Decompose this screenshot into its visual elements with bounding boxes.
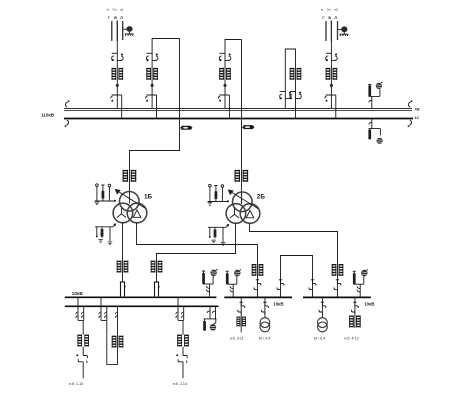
transformer 1B [113,189,147,223]
CT TA5 [326,68,338,80]
node tick Q5 [330,84,332,86]
svg-text:1С: 1С [415,116,420,120]
svg-text:110кВ: 110кВ [41,112,55,117]
svg-text:1Б: 1Б [144,193,153,200]
disconnector QS4a [280,92,292,100]
voltage transformer bay TV2 below 110kV bus [368,119,382,143]
feeder F6 (station transformer) [321,298,323,317]
voltage transformer bay TV3 above left bus end [202,269,218,296]
disconnector QS2 [146,53,158,61]
disconnector QS13 [176,347,187,364]
svg-text:н.б. 1-10: н.б. 1-10 [69,382,83,386]
transformer feeder 2 (to 2B) [241,40,243,205]
node tick Q2 [151,84,153,86]
bar hook Q2 [145,96,147,98]
coupler loop wire [285,49,295,119]
bus jumper P (middle to right bus) [281,256,313,297]
main line Q1 [116,21,118,109]
svg-text:Ол: Ол [327,8,331,12]
bus W2 upper line [65,296,217,298]
cluster above 1B [95,184,116,205]
CT TA10 [151,261,163,273]
bus end hook right-bottom [408,120,412,127]
flag marker on feeder 2 [242,125,255,129]
cluster above 2B [208,184,229,205]
loop wire F2 [107,307,118,365]
svg-text:2Б: 2Б [257,194,266,201]
voltage transformer bay TV1 above 110kV bus [368,82,383,108]
CT TA1 [112,68,124,80]
hooks F2 [99,312,101,318]
svg-text:Л: Л [334,16,337,20]
feeder F1 drops [78,298,84,321]
svg-text:Ол: Ол [112,8,116,12]
flag marker on feeder 1 [180,126,193,130]
node tick Q1 [116,84,118,86]
svg-text:Л: Л [120,16,123,20]
svg-text:10кВ: 10кВ [273,302,283,307]
disconnector QS8 [254,280,261,291]
svg-text:10кВ: 10кВ [72,291,84,296]
bus branch bar Q5 [326,95,336,119]
feeder F4 [240,298,242,332]
transformer 2B [226,190,260,224]
svg-text:иЗ: иЗ [120,8,124,12]
CT TA16 [349,316,361,328]
svg-text:м: м [321,8,323,12]
CT TA9 [252,264,264,276]
hook F2b [115,312,117,318]
disconnector QS15 [261,302,268,313]
svg-text:н.б. 2-14: н.б. 2-14 [173,382,187,386]
breaker QF2 [154,282,160,296]
bus end hook left-bottom [65,120,69,127]
svg-text:н.б. 3-11: н.б. 3-11 [230,337,244,341]
phase stub left [111,21,113,41]
transformer T1 [260,318,270,332]
CT TA3 [219,68,231,80]
voltage transformer bay TV5 above middle bus [226,270,242,297]
bus W2 lower line [65,305,219,307]
wire 1B-LV2 to middle bus [137,223,258,297]
phase stub left [325,21,327,41]
wire 2B-LV1 to left bus [157,223,236,282]
CT TA13 [112,336,124,348]
feeder F1 main [82,320,84,378]
bus W4 (right) [303,296,371,298]
bar hook Q1 [111,96,113,98]
feeder F3 main [182,320,184,378]
disconnector QS4b [290,92,302,100]
svg-text:В: В [114,16,117,20]
disconnector QS1 [112,53,124,61]
hooks F1 [76,312,78,318]
voltage transformer bay TV4 below left bus end [203,307,216,331]
transformer feeder 1 (to 1B) [130,39,180,204]
CT TA7 on 2B HV [234,170,248,182]
CT TA4 [290,68,302,80]
CT TA11 [332,264,344,276]
disconnector QS14 [238,302,245,313]
voltage transformer bay TV6 above right bus [353,270,369,297]
disconnector QS17 [351,302,358,313]
bus branch bar Q1 [112,95,122,119]
main line Q3 [225,40,242,109]
svg-text:иЗ: иЗ [334,8,338,12]
feeder F5 (station transformer) [264,298,266,317]
bar hook Q5 [325,96,327,98]
breaker QF1 [120,282,126,296]
arrester FV1 [123,26,134,36]
bus branch bar Q3 [219,95,229,119]
phase stub right [122,21,124,40]
CT TA12 [77,335,89,347]
svg-text:10 / 0,4: 10 / 0,4 [313,337,325,341]
svg-text:10 / 0,4: 10 / 0,4 [258,337,270,341]
cluster below 2B [208,224,229,245]
bar hook Q3 [218,96,220,98]
disconnector QS10 [277,280,284,291]
CT TA6 on 1B HV [123,170,137,182]
bus branch bar Q2 [146,95,156,119]
feeder F7 [354,298,356,328]
svg-text:В: В [328,16,331,20]
disconnector QS11 [309,280,316,291]
bus end hook right-top [408,100,412,107]
CT TA8 [117,261,129,273]
feeder F3 drops [178,298,184,321]
cluster below 1B [95,224,116,245]
CT TA14 [177,335,189,347]
bus W1 lower (110kV bus line 2) [64,118,413,120]
arrester FV5 [338,26,349,36]
bus W1 upper (110kV bus line 1) [64,108,412,110]
CT TA2 [146,68,158,80]
svg-text:ХВ: ХВ [415,108,420,112]
CT TA15 [236,317,246,327]
bus W3 (middle) [224,296,292,298]
feeder F2 (U loop to TSN) drops [101,298,107,321]
disconnector QS9 [334,280,341,291]
phase stub right [337,21,339,40]
wire 2B-LV2 to right bus [250,223,338,296]
svg-text:10кВ: 10кВ [364,301,374,306]
disconnector QS3 [219,53,231,61]
transformer T2 [318,318,328,332]
disconnector QS12 [76,347,87,364]
svg-text:н.б. 4-12: н.б. 4-12 [344,337,358,341]
main line Q2 [152,39,179,109]
hooks F3 [176,312,178,318]
disconnector QS5 [326,53,338,61]
disconnector QS16 [319,302,326,313]
wire 1B-LV1 to left bus [122,223,124,282]
svg-text:м: м [107,8,109,12]
main line Q5 [330,21,332,109]
node tick Q3 [224,84,226,86]
bus end hook left-top [65,100,69,107]
